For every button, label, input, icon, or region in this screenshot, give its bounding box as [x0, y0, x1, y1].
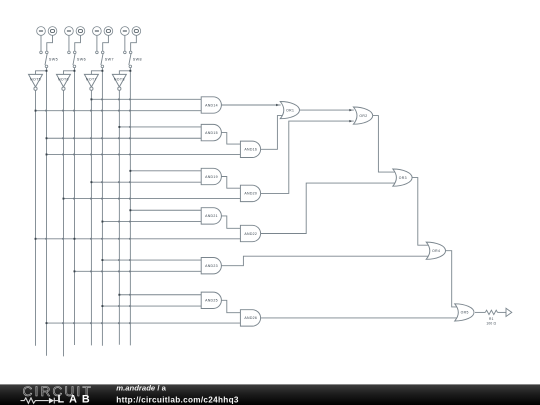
svg-text:SW7: SW7 — [105, 58, 114, 62]
svg-text:AND14: AND14 — [205, 103, 218, 107]
svg-text:m.andrade / a: m.andrade / a — [116, 383, 166, 392]
svg-text:NOT7: NOT7 — [86, 77, 97, 81]
svg-text:NOT5: NOT5 — [30, 77, 41, 81]
svg-text:OR1: OR1 — [286, 108, 294, 112]
svg-text:AND21: AND21 — [205, 214, 218, 218]
svg-text:AND16: AND16 — [244, 148, 257, 152]
svg-text:AND20: AND20 — [244, 192, 257, 196]
svg-text:SW8: SW8 — [133, 58, 142, 62]
svg-text:AND15: AND15 — [205, 131, 218, 135]
svg-text:AND19: AND19 — [205, 175, 218, 179]
svg-text:OR3: OR3 — [399, 176, 407, 180]
svg-text:AND23: AND23 — [205, 264, 218, 268]
svg-text:SW6: SW6 — [77, 58, 86, 62]
svg-text:LAB: LAB — [58, 394, 95, 405]
svg-text:AND22: AND22 — [244, 232, 257, 236]
svg-text:OR2: OR2 — [359, 114, 367, 118]
svg-text:http://circuitlab.com/c24hhq3: http://circuitlab.com/c24hhq3 — [116, 395, 239, 404]
svg-text:100 Ω: 100 Ω — [486, 321, 496, 325]
svg-text:NOT6: NOT6 — [58, 77, 69, 81]
svg-text:SW5: SW5 — [49, 58, 58, 62]
svg-text:NOT8: NOT8 — [114, 77, 125, 81]
svg-text:OR5: OR5 — [461, 311, 469, 315]
svg-text:OR4: OR4 — [432, 249, 440, 253]
svg-text:AND25: AND25 — [205, 299, 218, 303]
svg-text:AND26: AND26 — [244, 316, 257, 320]
